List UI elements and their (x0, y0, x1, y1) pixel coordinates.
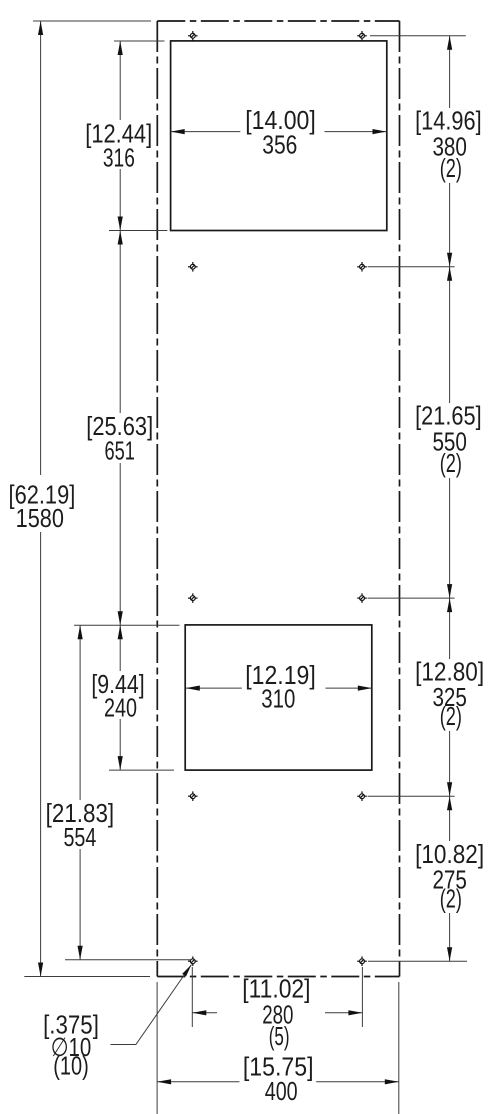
extension line hole row5 left vertical (191, 967, 193, 1027)
hole row2 right (357, 262, 367, 272)
hole row2 left (188, 262, 198, 272)
hole row5 right (357, 956, 367, 966)
svg-text:554: 554 (63, 822, 96, 852)
leader line to hole (111, 965, 192, 1045)
extension line hole row1 right (370, 35, 466, 37)
dimension 14.96/380 line (right chain seg1) (447, 36, 452, 267)
extension line cutout2 top left (74, 624, 180, 626)
dimension 14.00/356 line (cutout1 width) (171, 129, 387, 134)
dimension 15.75/400 line (panel width) (157, 1079, 399, 1084)
dimension 25.63/651 line (118, 231, 123, 626)
hole row3 left (188, 593, 198, 603)
panel outline bottom edge (dash-dot) (157, 976, 399, 978)
extension line hole row5 right (368, 960, 467, 962)
svg-text:(10): (10) (53, 1051, 89, 1081)
extension line hole row4 right (368, 795, 455, 797)
svg-text:310: 310 (261, 684, 295, 714)
extension line hole row5 right vertical (361, 967, 363, 1027)
extension line cutout1 top left (114, 40, 165, 42)
dimension 12.44/316 line (118, 41, 123, 231)
svg-text:651: 651 (105, 436, 135, 466)
svg-text:(2): (2) (440, 448, 462, 478)
dimension 10.82/275 line (right chain seg4) (447, 796, 452, 961)
cutout 2 (lower rectangular opening 310x240) (185, 625, 372, 770)
extension line panel right corner vertical (398, 982, 400, 1114)
dimension 62.19/1580 line (38, 21, 43, 977)
hole row4 right (357, 791, 367, 801)
dimension 12.80/325 line (right chain seg3) (447, 598, 452, 796)
cutout 1 (top rectangular opening 356x316) (171, 41, 387, 231)
svg-text:316: 316 (103, 142, 135, 172)
svg-text:(2): (2) (440, 701, 462, 731)
extension line hole row3 right (368, 597, 455, 599)
dimension 21.83/554 line (78, 625, 83, 960)
hole row5 left (188, 956, 198, 966)
dimension 12.19/310 line (cutout2 width) (186, 686, 372, 691)
dimension 21.65/550 line (right chain seg2) (447, 267, 452, 598)
hole row1 left (188, 31, 198, 41)
extension line cutout2 bottom left (109, 769, 174, 771)
hole row3 right (357, 593, 367, 603)
extension line panel left corner vertical (156, 982, 158, 1114)
extension line hole row5 left (65, 959, 191, 961)
dimension 11.02/280 line (hole spacing) (192, 1010, 362, 1015)
hole row4 left (188, 791, 198, 801)
panel outline right edge (dash-dot) (399, 21, 401, 977)
dimension 9.44/240 line (118, 625, 123, 770)
panel outline left edge (dash-dot) (156, 21, 158, 977)
svg-text:1580: 1580 (16, 503, 64, 533)
extension line top left (overall height top) (33, 20, 151, 22)
svg-text:(2): (2) (440, 153, 462, 183)
svg-text:(5): (5) (269, 1021, 290, 1051)
svg-text:240: 240 (104, 693, 137, 723)
extension line bottom left (overall height bottom) (24, 976, 150, 978)
svg-text:400: 400 (265, 1076, 298, 1106)
extension line cutout1 bottom left (109, 230, 167, 232)
svg-text:356: 356 (262, 130, 297, 160)
svg-text:(2): (2) (440, 884, 462, 914)
hole row1 right (357, 31, 367, 41)
extension line hole row2 right (368, 266, 455, 268)
panel outline top edge (dash-dot) (157, 20, 399, 22)
